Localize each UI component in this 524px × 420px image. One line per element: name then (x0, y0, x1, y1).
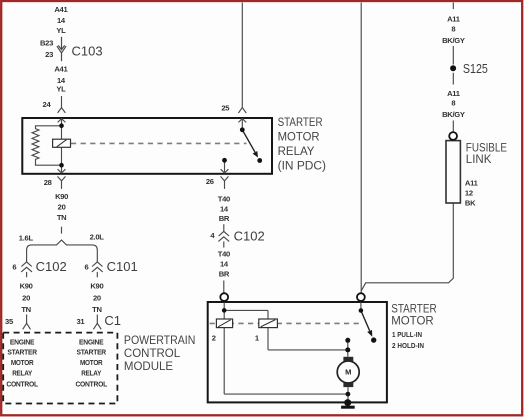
svg-text:25: 25 (221, 104, 230, 113)
svg-text:2: 2 (212, 334, 216, 343)
svg-text:14: 14 (220, 260, 229, 269)
svg-text:20: 20 (22, 293, 30, 302)
svg-text:C1: C1 (104, 313, 121, 328)
svg-text:26: 26 (206, 177, 214, 186)
svg-text:BK/GY: BK/GY (442, 110, 465, 119)
svg-text:A11: A11 (447, 89, 461, 98)
svg-text:YL: YL (56, 26, 66, 35)
svg-text:BR: BR (219, 214, 230, 223)
svg-text:FUSIBLE: FUSIBLE (466, 143, 507, 155)
svg-text:TN: TN (57, 213, 67, 222)
svg-text:MOTOR: MOTOR (391, 316, 434, 328)
svg-text:12: 12 (465, 188, 473, 197)
svg-text:YL: YL (56, 85, 66, 94)
svg-text:BK: BK (465, 199, 476, 208)
svg-text:C102: C102 (36, 259, 67, 274)
svg-text:BR: BR (219, 270, 230, 279)
svg-text:6: 6 (12, 263, 16, 272)
svg-text:RELAY: RELAY (12, 368, 32, 377)
svg-text:C102: C102 (234, 228, 265, 243)
svg-text:A11: A11 (465, 179, 479, 188)
svg-text:A11: A11 (447, 15, 461, 24)
svg-text:ENGINE: ENGINE (79, 337, 104, 346)
svg-text:STARTER: STARTER (391, 304, 437, 316)
svg-text:MOTOR: MOTOR (278, 131, 320, 143)
svg-text:K90: K90 (55, 192, 68, 201)
svg-text:MODULE: MODULE (124, 361, 174, 373)
svg-text:STARTER: STARTER (77, 348, 107, 357)
svg-text:2 HOLD-IN: 2 HOLD-IN (392, 341, 424, 350)
svg-text:MOTOR: MOTOR (80, 358, 103, 367)
svg-text:24: 24 (43, 100, 52, 109)
svg-text:M: M (345, 368, 351, 377)
svg-text:31: 31 (76, 317, 85, 326)
svg-text:2.0L: 2.0L (90, 233, 105, 242)
svg-text:RELAY: RELAY (278, 146, 315, 158)
svg-text:POWERTRAIN: POWERTRAIN (124, 335, 195, 347)
svg-text:A41: A41 (54, 65, 68, 74)
svg-text:35: 35 (5, 317, 14, 326)
svg-text:K90: K90 (20, 281, 33, 290)
svg-text:MOTOR: MOTOR (11, 358, 34, 367)
svg-text:20: 20 (58, 202, 66, 211)
svg-text:28: 28 (44, 178, 52, 187)
svg-text:TN: TN (21, 305, 31, 314)
svg-text:1 PULL-IN: 1 PULL-IN (392, 330, 422, 339)
svg-text:20: 20 (93, 293, 101, 302)
svg-text:C101: C101 (107, 259, 138, 274)
svg-text:LINK: LINK (466, 154, 492, 166)
svg-text:C103: C103 (72, 44, 103, 59)
svg-text:(IN PDC): (IN PDC) (278, 160, 327, 172)
svg-text:S125: S125 (463, 61, 488, 76)
svg-text:8: 8 (451, 24, 455, 33)
svg-text:CONTROL: CONTROL (75, 379, 107, 388)
svg-text:CONTROL: CONTROL (6, 379, 38, 388)
svg-text:1.6L: 1.6L (19, 233, 34, 242)
svg-text:8: 8 (451, 99, 455, 108)
svg-text:A41: A41 (54, 5, 68, 14)
svg-text:T40: T40 (218, 195, 230, 204)
svg-text:CONTROL: CONTROL (124, 348, 181, 360)
svg-text:BK/GY: BK/GY (442, 36, 465, 45)
svg-text:TN: TN (92, 305, 102, 314)
svg-text:6: 6 (84, 263, 88, 272)
svg-text:STARTER: STARTER (7, 348, 37, 357)
svg-text:RELAY: RELAY (81, 368, 101, 377)
svg-text:T40: T40 (218, 250, 230, 259)
svg-text:14: 14 (220, 205, 229, 214)
svg-text:K90: K90 (90, 281, 103, 290)
svg-text:14: 14 (57, 76, 66, 85)
svg-text:ENGINE: ENGINE (10, 337, 35, 346)
svg-text:STARTER: STARTER (278, 117, 323, 129)
svg-text:14: 14 (57, 16, 66, 25)
svg-text:B23: B23 (40, 39, 53, 48)
svg-text:23: 23 (45, 50, 53, 59)
